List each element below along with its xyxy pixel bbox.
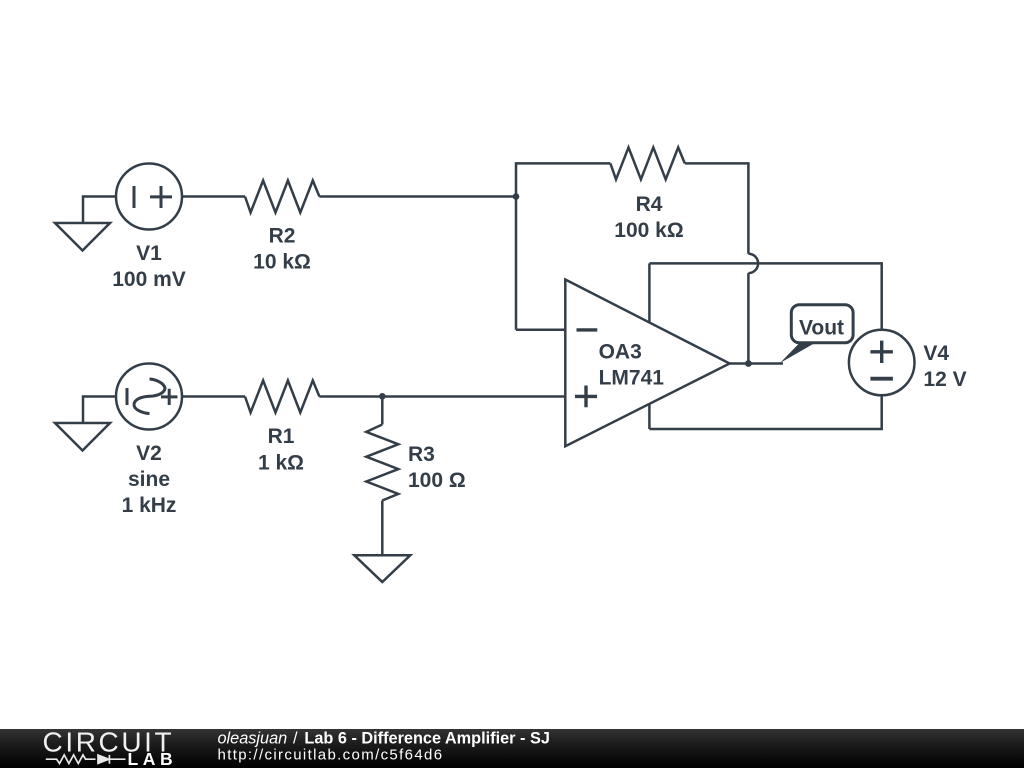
svg-text:Vout: Vout: [799, 317, 844, 340]
svg-text:1 kΩ: 1 kΩ: [258, 452, 304, 475]
svg-text:100 mV: 100 mV: [112, 268, 186, 291]
svg-text:R1: R1: [268, 425, 295, 448]
svg-text:sine: sine: [128, 468, 170, 491]
svg-text:R2: R2: [269, 225, 296, 248]
svg-text:12 V: 12 V: [923, 368, 966, 391]
svg-text:LAB: LAB: [128, 749, 178, 768]
svg-text:OA3: OA3: [599, 340, 642, 363]
svg-text:R4: R4: [636, 193, 663, 216]
svg-text:R3: R3: [408, 443, 435, 466]
svg-text:1 kHz: 1 kHz: [122, 494, 177, 517]
svg-text:100 kΩ: 100 kΩ: [614, 219, 683, 242]
svg-text:V4: V4: [923, 342, 949, 365]
svg-text:LM741: LM741: [599, 366, 665, 389]
svg-text:V2: V2: [136, 442, 162, 465]
svg-text:V1: V1: [136, 242, 162, 265]
svg-text:100 Ω: 100 Ω: [408, 469, 466, 492]
svg-text:oleasjuan / Lab 6 - Difference: oleasjuan / Lab 6 - Difference Amplifier…: [218, 730, 550, 748]
svg-text:10 kΩ: 10 kΩ: [253, 251, 311, 274]
svg-text:http://circuitlab.com/c5f64d6: http://circuitlab.com/c5f64d6: [218, 746, 444, 763]
